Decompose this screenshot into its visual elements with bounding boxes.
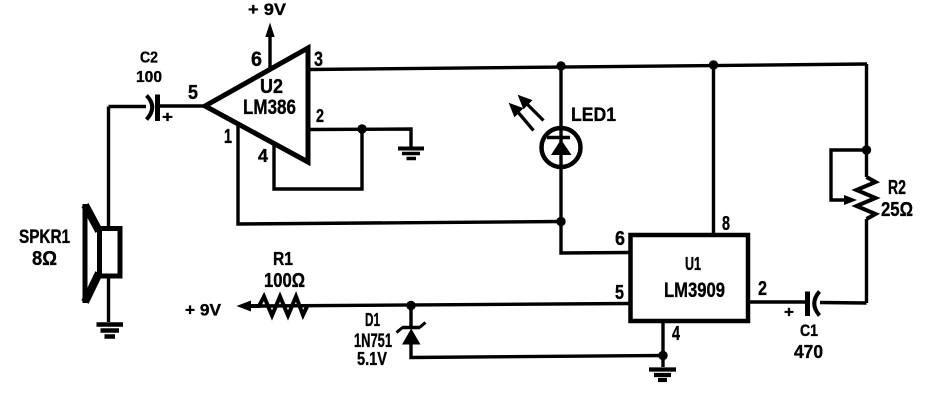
svg-text:+: +: [162, 109, 173, 126]
svg-text:+: +: [784, 304, 794, 321]
svg-text:R1: R1: [273, 249, 293, 269]
svg-text:5: 5: [615, 282, 624, 304]
svg-text:U2: U2: [260, 76, 283, 98]
svg-text:6: 6: [251, 48, 262, 71]
svg-text:4: 4: [258, 146, 268, 166]
svg-text:LM3909: LM3909: [664, 279, 725, 302]
svg-text:LM386: LM386: [243, 96, 296, 119]
svg-text:D1: D1: [365, 310, 380, 330]
svg-text:+ 9V: + 9V: [185, 301, 222, 320]
svg-text:8Ω: 8Ω: [32, 248, 57, 270]
svg-text:C2: C2: [140, 50, 158, 67]
svg-text:3: 3: [314, 48, 323, 71]
svg-text:SPKR1: SPKR1: [19, 227, 70, 248]
svg-text:470: 470: [794, 342, 823, 362]
svg-text:1: 1: [224, 126, 232, 148]
svg-text:25Ω: 25Ω: [881, 199, 913, 221]
svg-text:5.1V: 5.1V: [357, 349, 387, 369]
svg-text:8: 8: [722, 213, 730, 235]
svg-text:100: 100: [136, 69, 162, 86]
svg-text:C1: C1: [800, 321, 818, 340]
svg-text:6: 6: [615, 228, 625, 250]
svg-text:+ 9V: + 9V: [248, 0, 287, 19]
svg-text:U1: U1: [685, 253, 701, 274]
svg-text:2: 2: [758, 278, 767, 300]
svg-text:5: 5: [188, 82, 198, 104]
svg-text:100Ω: 100Ω: [264, 270, 305, 292]
svg-text:4: 4: [672, 323, 681, 345]
svg-text:R2: R2: [888, 177, 906, 199]
svg-text:2: 2: [316, 106, 324, 126]
svg-text:LED1: LED1: [571, 105, 616, 126]
